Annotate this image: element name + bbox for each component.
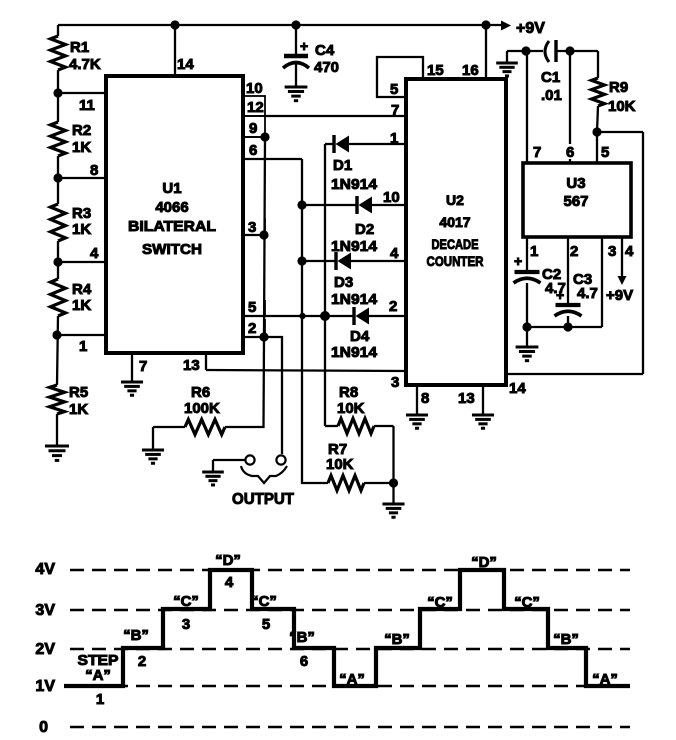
- svg-text:1K: 1K: [72, 221, 91, 238]
- svg-text:U2: U2: [446, 192, 464, 208]
- svg-text:3: 3: [608, 243, 616, 260]
- svg-text:4066: 4066: [155, 199, 188, 216]
- svg-text:“A”: “A”: [85, 667, 111, 684]
- svg-text:13: 13: [183, 357, 200, 374]
- svg-text:10K: 10K: [337, 400, 365, 417]
- svg-text:13: 13: [458, 390, 475, 407]
- svg-text:7: 7: [533, 144, 541, 161]
- svg-text:5: 5: [601, 144, 609, 161]
- svg-text:4017: 4017: [439, 214, 470, 230]
- svg-text:COUNTER: COUNTER: [427, 253, 484, 269]
- svg-text:“B”: “B”: [289, 629, 315, 646]
- svg-text:9: 9: [249, 120, 257, 137]
- svg-text:2: 2: [389, 298, 397, 315]
- svg-text:2: 2: [570, 243, 578, 260]
- svg-text:D2: D2: [355, 221, 374, 238]
- svg-text:1: 1: [530, 243, 538, 260]
- svg-text:0: 0: [39, 719, 48, 736]
- svg-text:7: 7: [391, 102, 399, 119]
- svg-text:C1: C1: [541, 69, 560, 86]
- svg-text:+9V: +9V: [606, 287, 633, 304]
- svg-text:4.7K: 4.7K: [69, 56, 101, 73]
- svg-text:“C”: “C”: [173, 593, 199, 610]
- svg-text:1V: 1V: [35, 678, 55, 695]
- svg-text:R5: R5: [69, 384, 88, 401]
- svg-text:“C”: “C”: [514, 594, 540, 611]
- svg-text:“B”: “B”: [123, 627, 149, 644]
- svg-text:1N914: 1N914: [331, 291, 378, 308]
- svg-text:C4: C4: [315, 42, 335, 59]
- svg-text:5: 5: [390, 81, 398, 98]
- svg-text:“B”: “B”: [384, 631, 410, 648]
- svg-text:R2: R2: [72, 122, 91, 139]
- svg-text:1: 1: [96, 691, 104, 708]
- svg-text:+: +: [556, 287, 564, 303]
- svg-text:8: 8: [90, 162, 98, 179]
- svg-text:3: 3: [391, 374, 399, 391]
- svg-text:4.7: 4.7: [577, 285, 598, 302]
- svg-text:1: 1: [390, 130, 398, 147]
- svg-text:4: 4: [90, 245, 99, 262]
- svg-text:7: 7: [139, 358, 147, 375]
- svg-text:470: 470: [314, 59, 339, 76]
- svg-text:+: +: [514, 253, 522, 269]
- svg-text:U1: U1: [162, 180, 181, 197]
- svg-text:14: 14: [509, 380, 526, 397]
- svg-text:1: 1: [79, 338, 87, 355]
- svg-text:“C”: “C”: [427, 594, 453, 611]
- svg-text:R1: R1: [70, 39, 89, 56]
- svg-text:1N914: 1N914: [331, 344, 378, 361]
- svg-text:100K: 100K: [184, 400, 220, 417]
- svg-text:4V: 4V: [35, 561, 55, 578]
- svg-text:“A”: “A”: [339, 671, 365, 688]
- svg-text:1N914: 1N914: [331, 176, 378, 193]
- svg-text:2: 2: [138, 653, 146, 670]
- svg-text:10: 10: [246, 80, 263, 97]
- svg-text:6: 6: [249, 142, 257, 159]
- svg-text:OUTPUT: OUTPUT: [232, 491, 294, 508]
- svg-text:.01: .01: [541, 87, 562, 104]
- svg-text:15: 15: [427, 62, 444, 79]
- svg-text:R6: R6: [191, 384, 210, 401]
- svg-text:3: 3: [182, 616, 190, 633]
- svg-text:4: 4: [390, 245, 399, 262]
- svg-text:5: 5: [248, 299, 256, 316]
- svg-text:1K: 1K: [72, 297, 91, 314]
- svg-text:11: 11: [79, 97, 95, 114]
- svg-text:2: 2: [248, 320, 256, 337]
- svg-text:6: 6: [300, 653, 308, 670]
- svg-text:“C”: “C”: [251, 593, 277, 610]
- svg-text:3V: 3V: [35, 602, 55, 619]
- svg-text:R9: R9: [609, 79, 628, 96]
- svg-text:8: 8: [421, 390, 429, 407]
- svg-text:BILATERAL: BILATERAL: [128, 218, 216, 235]
- svg-text:“D”: “D”: [471, 554, 497, 571]
- svg-text:16: 16: [462, 62, 479, 79]
- svg-text:SWITCH: SWITCH: [142, 241, 202, 258]
- svg-text:+9V: +9V: [516, 20, 545, 37]
- svg-text:567: 567: [563, 193, 588, 210]
- svg-text:DECADE: DECADE: [432, 236, 479, 252]
- svg-text:D3: D3: [334, 274, 353, 291]
- svg-text:10: 10: [383, 189, 400, 206]
- svg-text:6: 6: [566, 144, 574, 161]
- svg-text:D4: D4: [350, 328, 370, 345]
- svg-text:1K: 1K: [72, 139, 91, 156]
- svg-text:+: +: [300, 38, 308, 54]
- svg-text:R8: R8: [339, 384, 358, 401]
- svg-text:2V: 2V: [35, 641, 55, 658]
- svg-text:1K: 1K: [69, 401, 88, 418]
- svg-text:R4: R4: [72, 281, 92, 298]
- svg-text:14: 14: [177, 56, 194, 73]
- svg-text:12: 12: [247, 99, 264, 116]
- svg-text:4: 4: [225, 574, 234, 591]
- svg-text:5: 5: [262, 616, 270, 633]
- svg-text:1N914: 1N914: [331, 238, 378, 255]
- svg-text:“A”: “A”: [592, 671, 618, 688]
- svg-text:R3: R3: [72, 205, 91, 222]
- svg-text:4: 4: [625, 243, 634, 260]
- svg-text:“D”: “D”: [215, 552, 241, 569]
- svg-text:10K: 10K: [326, 456, 354, 473]
- svg-text:D1: D1: [333, 157, 352, 174]
- svg-text:U3: U3: [566, 175, 585, 192]
- svg-text:“B”: “B”: [553, 631, 579, 648]
- svg-text:10K: 10K: [608, 98, 636, 115]
- svg-text:3: 3: [248, 219, 256, 236]
